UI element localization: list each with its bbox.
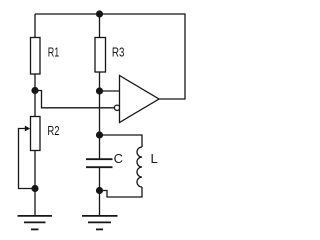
svg-text:R2: R2 [47,123,59,138]
svg-text:C: C [114,151,123,166]
svg-text:L: L [151,151,158,166]
svg-text:R1: R1 [48,45,60,60]
svg-text:R3: R3 [112,45,125,60]
